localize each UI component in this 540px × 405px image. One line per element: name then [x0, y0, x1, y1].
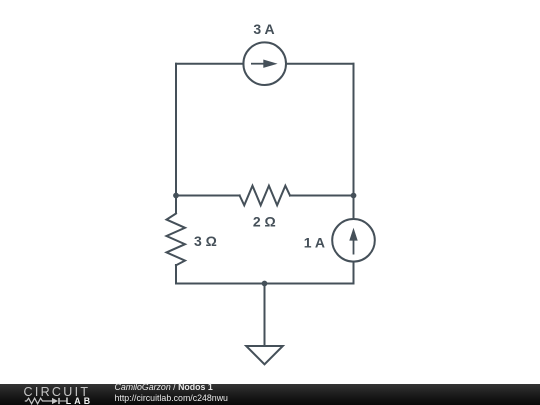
node junction dot bottom (ground node) — [262, 281, 268, 287]
wire right source bottom stub — [353, 262, 355, 284]
current source I2 arrow — [349, 228, 357, 255]
svg-text:1 A: 1 A — [304, 235, 325, 251]
label 3 A — [253, 21, 274, 37]
wire left rail vertical — [175, 64, 177, 196]
wire top-right horizontal — [286, 63, 354, 65]
node junction dot right — [351, 193, 357, 199]
footer bar — [0, 384, 540, 405]
label 1 A — [304, 235, 325, 251]
svg-text:3 Ω: 3 Ω — [194, 233, 217, 249]
current source I1 3A circle — [243, 42, 286, 85]
wire top-left horizontal — [176, 63, 244, 65]
logo LAB text — [66, 396, 93, 405]
wire middle-left horizontal — [176, 195, 240, 197]
wire left resistor top stub — [175, 196, 177, 214]
label 3 ohm — [194, 233, 217, 249]
logo diode symbol — [52, 398, 66, 404]
ground symbol triangle — [246, 346, 283, 364]
current source I2 1A circle — [332, 219, 375, 262]
wire middle-right horizontal — [290, 195, 354, 197]
svg-text:LAB: LAB — [66, 396, 93, 405]
node junction dot left — [173, 193, 179, 199]
svg-text:2 Ω: 2 Ω — [253, 214, 276, 230]
svg-text:3 A: 3 A — [253, 21, 274, 37]
wire left resistor bottom stub — [175, 265, 177, 284]
wire ground stub — [264, 284, 266, 347]
label 2 ohm — [253, 214, 276, 230]
wire right source top stub — [353, 196, 355, 220]
logo resistor zigzag — [25, 398, 52, 404]
resistor R1 2 ohm zigzag — [240, 186, 290, 206]
footer caption — [115, 382, 228, 403]
current source I1 arrow — [251, 60, 278, 68]
resistor R2 3 ohm zigzag — [167, 214, 186, 266]
wire right rail vertical — [353, 64, 355, 196]
wire bottom horizontal — [176, 283, 354, 285]
CircuitLab logo wordmark CIRCUIT — [24, 385, 91, 399]
